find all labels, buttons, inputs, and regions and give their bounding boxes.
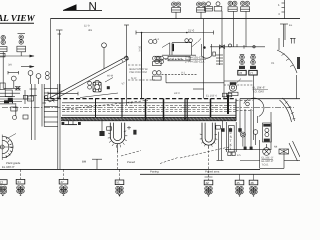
bottom instrument group B6 [249, 174, 258, 196]
note text block right of conveyor [122, 68, 148, 86]
roof marks top right [290, 38, 296, 44]
dimension line y=32.5 [136, 29, 214, 35]
screw feeder frame above drum [139, 33, 202, 99]
wall instrument circles x=47.5 [45, 72, 49, 80]
wall x=224 [223, 47, 225, 99]
valve circle V1 [11, 76, 16, 88]
feed flange pipe x=31-35 [30, 84, 37, 140]
svg-text:77: 77 [250, 71, 254, 75]
wall x=141.5 [141, 33, 143, 99]
left pipe run [3, 52, 20, 90]
tie rod 5 (double) [185, 99, 187, 121]
instrument cluster M1 [153, 56, 185, 65]
svg-text:N-10: N-10 [139, 45, 142, 51]
svg-text:T.O.S.: T.O.S. [262, 164, 269, 167]
agitator symbol [263, 148, 271, 156]
x-marked box [279, 149, 289, 154]
instrument cluster E [228, 1, 237, 47]
conveyor head drop [126, 57, 128, 105]
svg-text:76: 76 [239, 71, 243, 75]
building wall x=59 with flange top [56, 30, 63, 99]
note box under feeder [164, 56, 190, 61]
conveyor hanger circle [102, 43, 107, 69]
instrument cluster F [241, 1, 250, 47]
tie rod 1 [95, 99, 97, 118]
downcomer duct with stack label [227, 122, 237, 152]
svg-text:3/4: 3/4 [8, 64, 12, 67]
svg-text:4.5: 4.5 [237, 154, 241, 157]
svg-text:46-M: 46-M [107, 75, 113, 78]
instrument cluster L1 top-left [0, 35, 7, 57]
drum shell lower line [62, 114, 236, 116]
bottom instrument group B0 [0, 180, 7, 196]
svg-text:V-1: V-1 [181, 72, 185, 75]
valve stack VS1 [238, 55, 246, 76]
wall x=203.5 [203, 19, 205, 99]
hood duct at 200-212 [202, 44, 216, 58]
grade line [0, 168, 260, 170]
bottom instrument group B3 [115, 169, 124, 196]
svg-text:dim: dim [88, 29, 92, 32]
svg-text:4'-6 x 3'-0: 4'-6 x 3'-0 [169, 57, 182, 61]
building wall x=50 [49, 19, 51, 99]
benchmark post [82, 159, 102, 169]
svg-text:F-2: F-2 [155, 38, 159, 41]
svg-text:51: 51 [116, 181, 120, 185]
instrument cluster C2 [197, 2, 206, 19]
svg-text:Paved area: Paved area [205, 170, 220, 174]
fitting right of S1 [127, 126, 137, 135]
right lower diagonals [289, 141, 300, 161]
trap U-pipe S2 [200, 123, 218, 148]
valve circle V2 [28, 71, 33, 84]
instrument box D [214, 2, 222, 47]
big arc top right [277, 50, 297, 73]
dashed ties conveyor head [128, 65, 155, 80]
svg-text:FAN 2000 CFM: FAN 2000 CFM [130, 71, 147, 74]
support leg under drum left [62, 121, 81, 125]
wall x=252.5 [253, 75, 255, 140]
discharge head circle [236, 98, 264, 116]
drum end plate [235, 99, 237, 121]
post x=284 below border [280, 24, 293, 47]
bottom instrument group B4 [204, 147, 213, 197]
drum inner dashed lines [62, 104, 236, 106]
feed end pipes left [0, 97, 31, 116]
svg-text:47: 47 [60, 180, 64, 184]
blower pump P1 [229, 79, 242, 96]
svg-text:46: 46 [250, 181, 254, 185]
trap U-pipe S1 [108, 123, 128, 152]
discharge legs [223, 99, 272, 151]
conveyor tail fitting [43, 95, 48, 103]
standpipe x=126.5 [124, 25, 129, 57]
downcomer bottom fittings [228, 152, 241, 157]
svg-text:1: 1 [278, 3, 280, 7]
dark strip right edge [297, 57, 300, 69]
svg-text:Paved: Paved [127, 160, 135, 164]
floor line under discharge [225, 149, 271, 151]
discharge tag boxes [223, 93, 232, 97]
conveyor drive motor [80, 80, 118, 97]
section marker top right [278, 0, 285, 19]
svg-text:21'-0: 21'-0 [188, 29, 195, 33]
dimension under conveyor [48, 90, 78, 95]
svg-text:42: 42 [205, 181, 209, 185]
svg-text:24'-0: 24'-0 [174, 92, 180, 95]
north arrow [63, 4, 77, 10]
fittings blobs lower-left [0, 90, 34, 104]
bottom instrument group B1 [16, 169, 25, 195]
svg-text:45: 45 [236, 181, 240, 185]
tie rod 2 [121, 99, 123, 118]
svg-text:Paving: Paving [150, 170, 159, 174]
tie rod 4 [163, 99, 165, 121]
equip box E1 [0, 83, 12, 97]
svg-text:T.O. GRT: T.O. GRT [253, 90, 265, 94]
svg-text:N: N [89, 1, 97, 13]
drain elbow below drum [99, 121, 111, 136]
leader dashes bottom [118, 147, 232, 170]
valve circle V3 [36, 74, 41, 84]
valve frame F1 [263, 123, 272, 142]
svg-text:AL VIEW: AL VIEW [0, 13, 36, 23]
svg-text:X5: X5 [271, 62, 275, 65]
hopper wall top right [278, 38, 280, 50]
feed housing ladder [42, 84, 60, 169]
svg-text:1: 1 [230, 147, 232, 151]
inclined conveyor [48, 56, 129, 102]
gauge circle left small [253, 130, 258, 145]
platform line right [284, 160, 300, 162]
svg-text:EL: EL [289, 24, 293, 27]
tie rod 6 [210, 99, 212, 118]
right tank wall arcs [280, 98, 296, 122]
bottom instrument group B2 [59, 169, 68, 195]
svg-text:34: 34 [17, 180, 21, 184]
instrument cluster C1 [172, 2, 181, 19]
tie rod 3 [145, 99, 147, 121]
instrument cluster L2 top-left [17, 34, 26, 57]
svg-text:V7: V7 [122, 83, 126, 86]
instrument box C3 [205, 2, 213, 11]
svg-text:BM: BM [82, 160, 87, 164]
elevation note right [253, 86, 269, 94]
grade note mid [127, 160, 220, 174]
grade note left [2, 161, 21, 169]
pipe label text block [185, 56, 206, 64]
detail box bottom right [260, 140, 289, 168]
gauge circle on discharge [240, 132, 245, 147]
right floor line [240, 98, 300, 100]
svg-text:V-1: V-1 [128, 101, 133, 105]
svg-text:EL 100'-0": EL 100'-0" [2, 165, 15, 169]
feed end small boxes [11, 95, 28, 119]
svg-text:N-12: N-12 [131, 77, 137, 80]
mid horizontal pipes right block [166, 81, 253, 98]
drum hatched band [61, 117, 236, 121]
drum shell upper line [62, 102, 236, 104]
svg-text:EL 103'-6: EL 103'-6 [206, 95, 217, 98]
svg-text:4: 4 [278, 12, 280, 16]
svg-text:2"-PH-102-C1A: 2"-PH-102-C1A [185, 60, 204, 64]
valve stack VS2 [249, 55, 257, 76]
lower grade line [140, 173, 300, 175]
tie rod 7 thick [227, 95, 229, 114]
flange ladder left of valve stacks [216, 47, 223, 65]
support legs to floor [217, 132, 224, 161]
drum top heavy dashed line [44, 98, 236, 100]
main centerline [2, 107, 294, 109]
steam line with fittings y=46.8 [210, 44, 265, 49]
vent arrow line y=56 [0, 55, 35, 58]
leg feet blobs [221, 128, 253, 150]
dimension y=72.7 [8, 71, 19, 74]
tag box by S2 [216, 126, 221, 130]
instrument cluster M2 [153, 71, 197, 83]
svg-text:N4: N4 [274, 146, 278, 149]
instrument 2x2 under feeder [155, 56, 164, 64]
svg-text:12: 12 [0, 180, 3, 184]
leader to motor [105, 78, 113, 83]
svg-text:11'-9: 11'-9 [84, 25, 90, 28]
top border line [51, 18, 301, 20]
vent arrow line y=66.6 [8, 64, 35, 69]
girth gear [0, 134, 16, 161]
svg-text:9'-0: 9'-0 [58, 90, 63, 93]
bottom instrument group B5 [235, 174, 244, 196]
hidden chute dashed diagonal [63, 100, 148, 109]
conveyor head pulley [125, 56, 129, 60]
